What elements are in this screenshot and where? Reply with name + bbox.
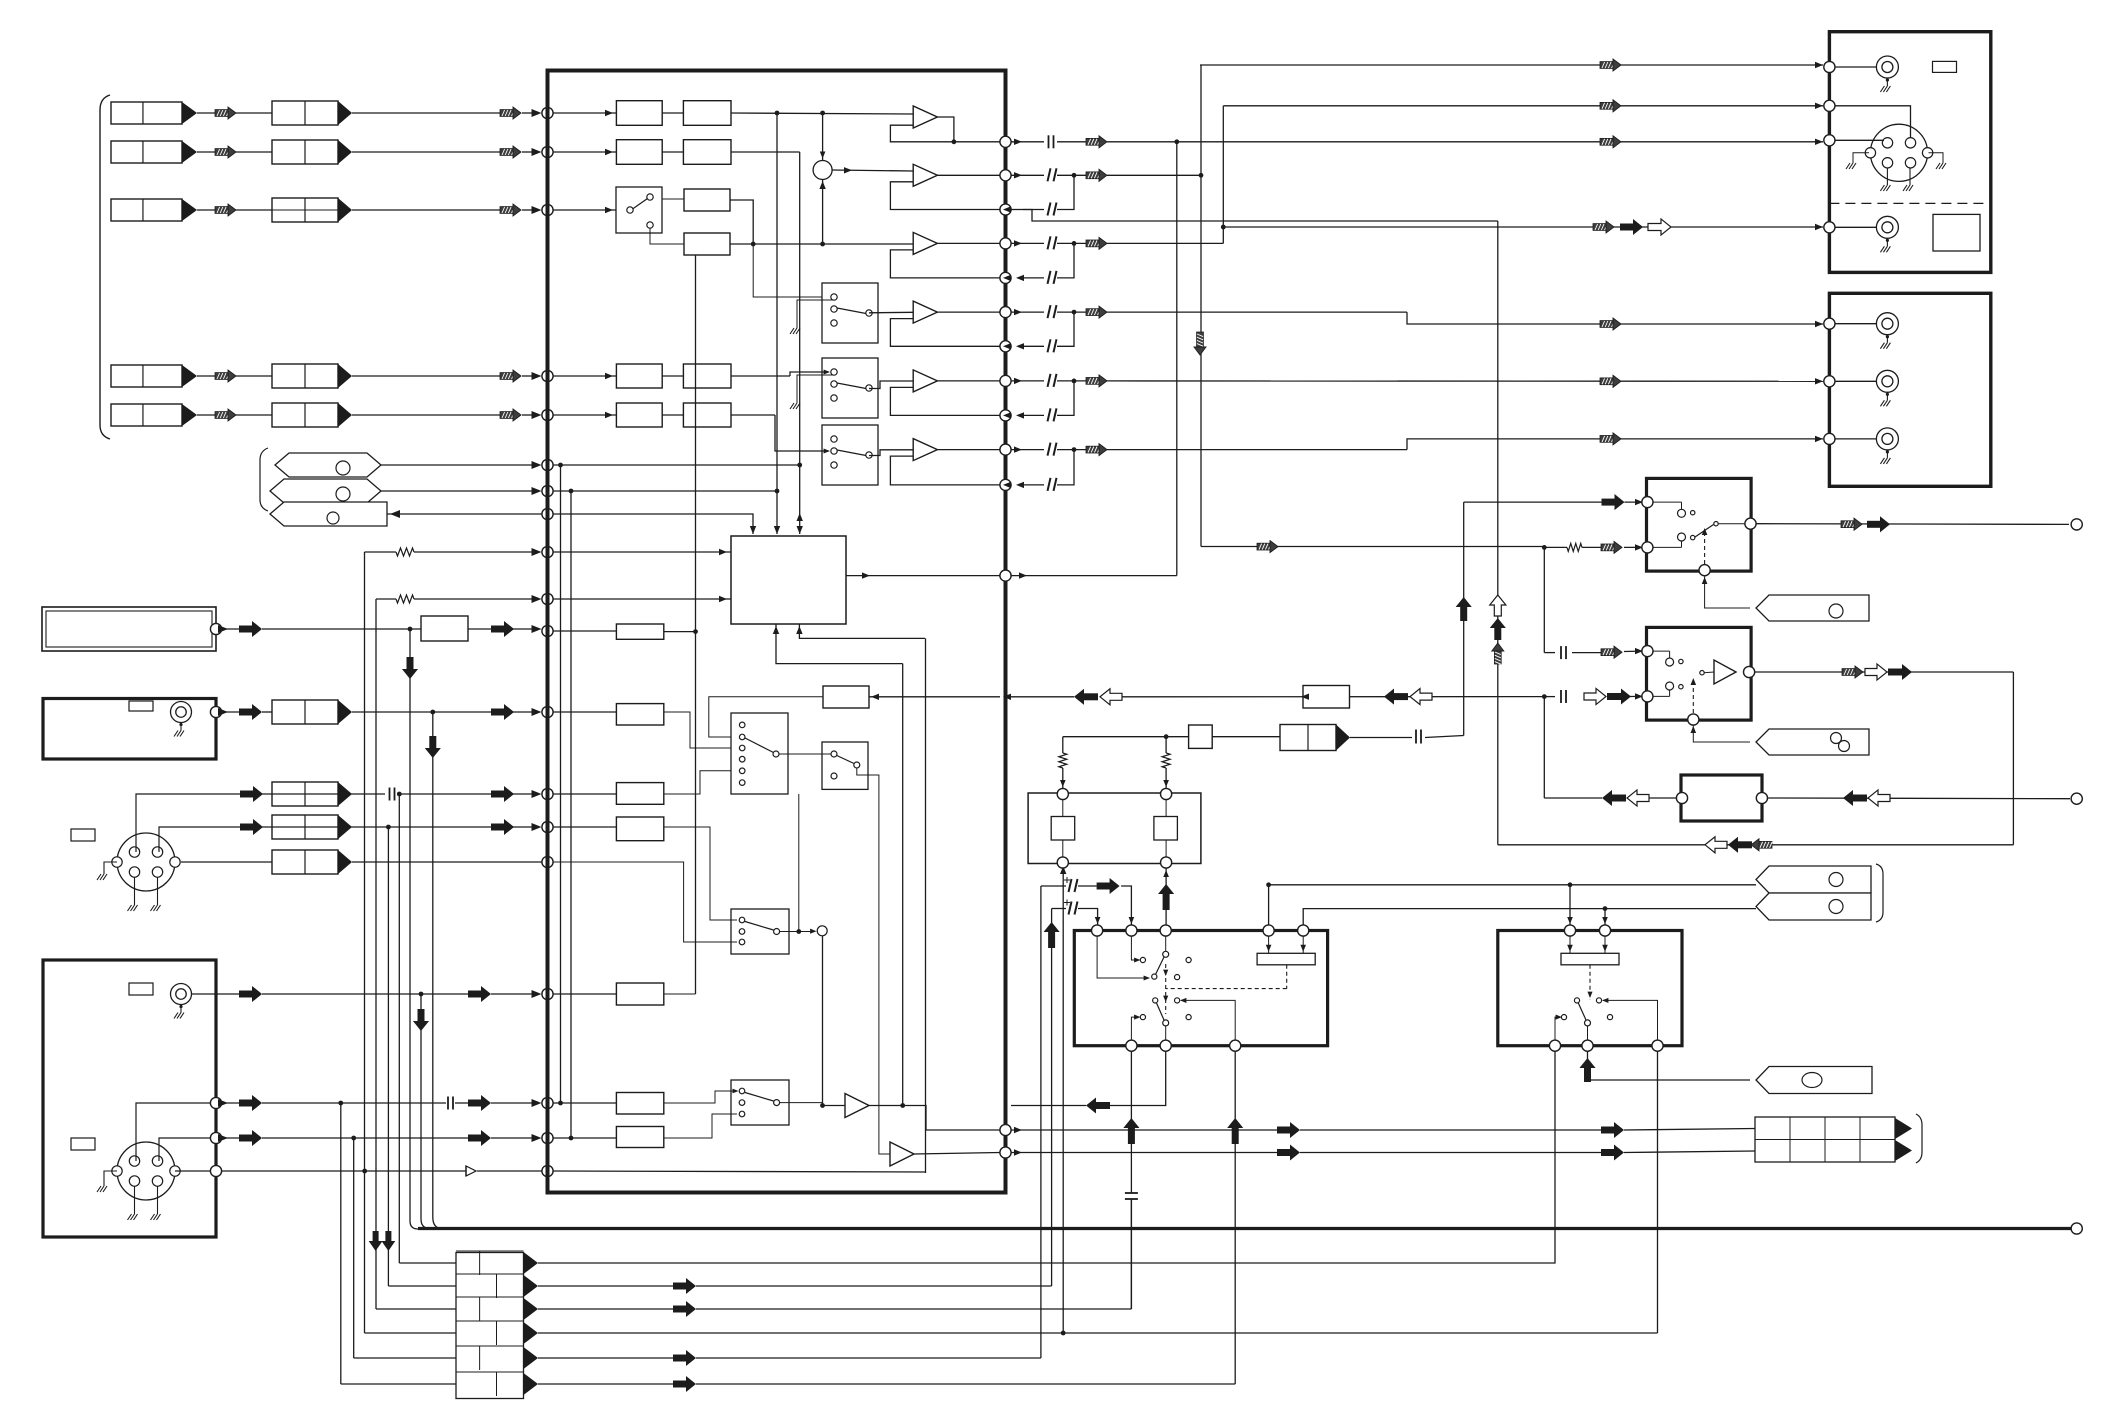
wire to IC row5	[352, 414, 500, 416]
wire rec head	[1212, 736, 1280, 738]
amplifier box right	[1829, 293, 1990, 486]
long vertical x695	[695, 255, 697, 994]
terminal S4 out bubble	[817, 926, 827, 936]
RCA jack tt	[171, 984, 192, 1005]
terminal P2	[542, 485, 553, 496]
hatched arrow row5 b	[500, 412, 514, 419]
fat arrow 994b	[468, 991, 482, 998]
terminal dolbyB bot x1555	[1549, 1040, 1560, 1051]
vertical x822 to summing	[822, 113, 824, 160]
resistor y547	[1567, 543, 1582, 551]
vertical x925	[925, 638, 927, 1173]
terminal R10	[1000, 444, 1011, 455]
fat arrow 631b	[491, 626, 505, 633]
outline arrow mon right	[1868, 790, 1890, 806]
relay REC contacts	[1678, 509, 1686, 517]
hatched arrow y547	[1601, 544, 1615, 551]
vertical x902	[902, 664, 904, 1106]
switch box M3	[822, 425, 878, 485]
dashed divider deck	[1829, 202, 1990, 204]
wire A3 output	[937, 242, 1000, 244]
hatched down arrow on x1200	[1197, 332, 1204, 348]
dolby B level rect	[1561, 953, 1619, 965]
wire R out y243.4	[1011, 242, 1044, 244]
block row827 inside	[616, 817, 663, 841]
vertical x1223	[1222, 106, 1224, 227]
terminal deck4	[1824, 222, 1835, 233]
cap y652	[1560, 646, 1562, 659]
op-amp A4	[913, 301, 937, 323]
filter block A1	[616, 101, 662, 126]
resistor lv2	[1162, 753, 1170, 768]
stack row6 wire right	[538, 1383, 673, 1385]
junction y696	[1542, 694, 1547, 699]
wire to tapeout1 y65	[1200, 64, 1823, 66]
wire C1	[662, 198, 684, 200]
terminal matrix out	[1000, 570, 1011, 581]
wire H5	[197, 414, 215, 416]
block C1	[684, 189, 730, 211]
filter block A2	[683, 101, 731, 126]
bracket left input group	[100, 95, 110, 439]
terminal 1138	[542, 1132, 553, 1143]
wire P2 inside	[553, 490, 777, 492]
terminal R5	[1000, 272, 1011, 283]
dolby B switch	[1585, 1020, 1591, 1026]
relay REC dashed ctl	[1704, 530, 1706, 564]
switch box M1	[822, 283, 878, 343]
terminal 827	[542, 821, 553, 832]
fat up arrow b1235	[1232, 1127, 1239, 1144]
phono label rect	[71, 1138, 95, 1150]
hatched arrow rec out	[1841, 521, 1855, 528]
block row1138 inside	[616, 1127, 663, 1148]
tuner box	[43, 699, 216, 760]
junction A 822	[820, 111, 825, 116]
op-amp A3	[913, 232, 937, 254]
terminal R9	[1000, 410, 1011, 421]
ground aux b1	[134, 877, 136, 905]
ground deck b2	[1909, 168, 1911, 185]
terminal rec ctl	[1699, 565, 1710, 576]
wire to IC row3	[352, 209, 500, 211]
hatched arrow y381	[1600, 378, 1614, 385]
terminal tt 1171	[210, 1165, 221, 1176]
fat up arrow b1131	[1128, 1127, 1135, 1144]
RCA amp1	[1876, 313, 1898, 335]
junction 1138	[351, 1136, 356, 1141]
terminal 862	[542, 856, 553, 867]
terminal play in2	[1642, 691, 1653, 702]
vertical x777 to matrix	[776, 113, 778, 534]
bus vertical x340	[340, 1103, 342, 1384]
wire A1 output jog	[937, 117, 1000, 142]
vertical x798	[798, 794, 800, 932]
ground phono b2	[157, 1186, 159, 1214]
wire to IC row2	[352, 151, 500, 153]
terminal mon jack	[2071, 793, 2082, 804]
hatched arrow y546b	[1257, 543, 1271, 550]
wire R2 y175	[1107, 174, 1201, 176]
wire R-row 599	[376, 598, 396, 600]
terminal lv b2	[1161, 857, 1172, 868]
wire R11 in	[1003, 482, 1011, 488]
stack head 6	[456, 1371, 524, 1373]
RCA amp2	[1876, 370, 1898, 392]
wire play out loop	[1755, 671, 2013, 673]
fat arrow y844	[1737, 841, 1752, 848]
wire row 862	[181, 861, 272, 863]
polar cap 2	[1069, 902, 1072, 915]
RCA deck out	[1876, 216, 1898, 238]
filter block B2	[683, 140, 731, 165]
terminal R12	[1000, 1124, 1011, 1135]
wire H1	[197, 112, 215, 114]
wire R12 row	[1011, 1129, 1277, 1131]
tape head row794	[272, 782, 338, 806]
wire amp8 out	[914, 1153, 1000, 1155]
op-amp A6	[913, 439, 937, 461]
terminal deck2	[1824, 100, 1835, 111]
hatched arrow y227	[1593, 224, 1607, 231]
fat arrow R13 b	[1601, 1149, 1615, 1156]
wire play in1	[1544, 652, 1555, 654]
wire 862 inside	[553, 862, 737, 942]
wire row D	[553, 375, 616, 377]
summing in from below	[822, 180, 824, 245]
wire C2 out	[730, 243, 913, 245]
wire row C	[553, 209, 616, 211]
feedback loop A3 from return row	[890, 250, 1000, 278]
outline arrow y844	[1705, 837, 1727, 853]
wire R1 to box y141.8	[1107, 141, 1823, 143]
ground deck b1	[1886, 168, 1888, 185]
hatched arrow row5	[215, 412, 229, 419]
fat arrow y696 left	[1083, 693, 1098, 700]
summing out wire	[832, 170, 913, 171]
wire rec in1 from cap	[1464, 501, 1602, 503]
wire deck2	[1835, 106, 1911, 138]
fat arrow 712b	[491, 709, 505, 716]
plug P3	[270, 502, 387, 526]
stack head 1	[456, 1250, 524, 1252]
hatched arrow row2 b	[500, 149, 514, 156]
square L	[1051, 817, 1075, 841]
pair return branch y449.6	[1072, 447, 1077, 452]
terminal dolbyB bot x1657	[1652, 1040, 1663, 1051]
ground M1	[797, 300, 834, 328]
indicator rect	[129, 701, 153, 711]
cap row794	[389, 788, 391, 801]
wire y696 feedback	[1011, 696, 1074, 698]
relay PLAY dashed	[1692, 680, 1694, 713]
junction 994	[419, 992, 424, 997]
terminal mon L	[1676, 792, 1687, 803]
terminal tt 1138	[210, 1132, 221, 1143]
square R	[1154, 817, 1178, 841]
RCA amp3	[1876, 428, 1898, 450]
hatched arrow out y312.1	[1086, 309, 1100, 316]
plug P2	[270, 479, 381, 503]
terminal dolbyA bot x1131	[1126, 1040, 1137, 1051]
wire A5 output	[937, 380, 1000, 382]
fat up arrow x1497	[1494, 627, 1501, 640]
fat arrow mon right	[1852, 795, 1867, 802]
hatched arrow y438	[1600, 436, 1614, 443]
fat up arrow lvb2	[1163, 893, 1170, 910]
terminal dolbyA top x1165	[1160, 925, 1171, 936]
tape head H5b	[272, 403, 338, 427]
wire amp7 input	[823, 1105, 846, 1107]
hatched arrow y105	[1600, 102, 1614, 109]
terminal dolbyA top x1097	[1092, 925, 1103, 936]
block row631	[421, 616, 468, 641]
DIN deck	[1870, 124, 1927, 181]
fat arrow stack2	[673, 1283, 687, 1290]
turntable box	[43, 960, 216, 1237]
terminal rec out	[1745, 518, 1756, 529]
wire deck3	[1835, 139, 1884, 141]
interior vertical x560	[560, 465, 562, 1103]
filter block D2	[683, 364, 731, 388]
wire row 712	[222, 711, 239, 713]
tape head rec	[1280, 725, 1336, 751]
junction R1 x1176	[1174, 139, 1179, 144]
summing node	[813, 161, 832, 180]
matrix block	[731, 536, 846, 624]
terminal lv b1	[1057, 857, 1068, 868]
wire H2	[197, 151, 215, 153]
matrix bottom feedback 1	[776, 624, 903, 664]
ground deck R	[1929, 153, 1944, 163]
wire 712 inside	[553, 711, 616, 713]
switch box M2	[822, 358, 878, 418]
fat arrow 794b	[491, 791, 505, 798]
dolby B dashed	[1589, 965, 1591, 1000]
hatched arrow y65	[1600, 62, 1614, 69]
hatched arrow row2	[215, 149, 229, 156]
feedback block FB	[823, 686, 869, 708]
terminal deck3	[1824, 135, 1835, 146]
hatched arrow row3	[215, 207, 229, 214]
terminal P1	[542, 459, 553, 470]
level rect deck	[1933, 61, 1957, 72]
wire rec cap	[1350, 737, 1412, 739]
wire H3	[197, 209, 215, 211]
vertical x1176	[1176, 142, 1178, 576]
terminal amp1	[1824, 318, 1835, 329]
stack row3 wire right	[538, 1308, 673, 1310]
stack head 4	[456, 1320, 524, 1322]
wire R out y141.8	[1011, 141, 1044, 143]
hatched arrow row3 b	[500, 207, 514, 214]
tape head H3a	[111, 199, 182, 221]
switch box S2	[822, 742, 868, 789]
terminal rec out jack	[2071, 519, 2082, 530]
plug dolby remote	[1756, 1067, 1872, 1094]
wire 827 inside	[553, 826, 616, 828]
aux label rect	[71, 829, 95, 841]
relay box PLAY	[1647, 627, 1752, 720]
fat up arrow dB2	[1584, 1067, 1591, 1082]
fat arrow 1138a	[239, 1135, 253, 1142]
fat arrow R12 a	[1277, 1127, 1291, 1134]
fat arrow rec in1	[1602, 499, 1616, 506]
op-amp A8	[890, 1142, 914, 1166]
bus vertical x388	[387, 827, 389, 1286]
relay PLAY contacts	[1666, 658, 1674, 666]
wire P1	[381, 464, 538, 466]
wire mon left	[1544, 797, 1602, 799]
terminal play in1	[1642, 646, 1653, 657]
wire 794 inside	[553, 793, 616, 795]
fat arrow stack5	[673, 1355, 687, 1362]
wire S3 out	[780, 1102, 823, 1104]
terminal dolbyB bot x1587	[1582, 1040, 1593, 1051]
resistor lv1	[1059, 753, 1067, 768]
hatched up arrow x1497	[1494, 650, 1501, 664]
wire R6 y312	[1107, 311, 1407, 313]
wire H4	[197, 375, 215, 377]
fat arrow rec out	[1867, 521, 1881, 528]
wire pcap2	[1052, 908, 1066, 910]
fat arrow dolbyA left	[1095, 1102, 1110, 1109]
dolby A level rect	[1257, 953, 1315, 965]
wire deck1	[1835, 66, 1876, 68]
DIN connector phono	[117, 1142, 175, 1200]
wire play plug	[1693, 725, 1750, 742]
wire 1171 inside	[553, 1171, 926, 1172]
terminal lv t2	[1161, 788, 1172, 799]
filter block D1	[616, 364, 662, 388]
junction 827	[386, 825, 391, 830]
monitor box	[1681, 775, 1762, 821]
wire 994 inside	[553, 993, 616, 995]
terminal 994	[542, 988, 553, 999]
terminal 1103	[542, 1097, 553, 1108]
wire to IC row1	[352, 112, 500, 114]
resistor row552	[396, 548, 414, 556]
vertical x1200	[1200, 65, 1202, 547]
terminal 552	[542, 546, 553, 557]
dolby box A	[1074, 931, 1327, 1046]
main ground bus wire	[418, 1227, 2071, 1230]
wire R10 y449	[1107, 449, 1407, 451]
outline arrow y696 mid	[1410, 689, 1432, 705]
vertical x2013	[2012, 672, 2014, 845]
wire to tapeout2 y105.8	[1223, 105, 1823, 107]
fat arrow 1138b	[468, 1135, 482, 1142]
wire row A	[553, 112, 616, 114]
op-amp A2	[913, 164, 937, 186]
display unit box	[42, 607, 216, 651]
block row994 inside	[616, 983, 663, 1005]
double down arrows on bus	[373, 1231, 379, 1242]
wire R3 return y221	[1023, 210, 1498, 222]
wire 1138 inside	[553, 1137, 616, 1139]
wire P1 inside	[553, 464, 800, 466]
wire R out y380.9	[1011, 380, 1044, 382]
junction A 777	[775, 111, 780, 116]
filter block E1	[616, 403, 662, 427]
terminal dolbyB t1	[1564, 925, 1575, 936]
terminal 794	[542, 788, 553, 799]
bracket plug group	[260, 448, 268, 511]
outline arrow y696 left	[1100, 689, 1122, 705]
plug P1	[275, 453, 381, 477]
wire dolbyA b3	[1234, 1051, 1236, 1384]
vertical x1544 low	[1543, 697, 1545, 798]
hatched arrow y844	[1758, 841, 1772, 848]
hatched arrow out y243.4	[1086, 240, 1100, 247]
terminal deck1	[1824, 61, 1835, 72]
terminal row2	[542, 146, 553, 157]
hatched arrow out y175.3	[1086, 172, 1100, 179]
wire row 794	[136, 794, 240, 852]
tape head row712	[272, 700, 338, 724]
wire y844 return	[1498, 844, 2014, 846]
terminal P3	[542, 508, 553, 519]
bus end terminal	[2071, 1223, 2082, 1234]
head stack block	[456, 1253, 524, 1399]
wire 552 inside	[553, 551, 731, 553]
stack wires left entries	[399, 1262, 456, 1264]
hatched arrow row4 b	[500, 373, 514, 380]
fat arrow y696 right	[1607, 693, 1622, 700]
block row631 inside	[616, 624, 663, 639]
dolby box B	[1498, 931, 1682, 1046]
wire deck4	[1835, 226, 1876, 228]
wire row 1138	[159, 1138, 216, 1161]
wire M3 out	[869, 450, 913, 456]
block row712 inside	[616, 704, 663, 725]
fat arrow stack3	[673, 1306, 687, 1313]
fat arrow 827a	[240, 824, 254, 831]
bracket record heads	[1916, 1114, 1922, 1163]
hatched arrow out y449.6	[1086, 446, 1100, 453]
tape head H5a	[111, 404, 182, 426]
wire y696 into FB rect	[869, 696, 1000, 698]
plug play remote	[1756, 729, 1869, 755]
plug rec remote	[1756, 595, 1869, 621]
terminal R3	[1000, 204, 1011, 215]
vertical x1544	[1543, 547, 1545, 652]
tape head H1a	[111, 102, 182, 124]
wire mon right	[1768, 797, 2070, 800]
terminal dolbyA top x1303	[1298, 925, 1309, 936]
terminal rec in1	[1642, 497, 1653, 508]
wire R-row 552	[365, 551, 397, 553]
fat arrow 712a	[239, 709, 253, 716]
wire P3 inside	[553, 514, 753, 534]
terminal R4	[1000, 238, 1011, 249]
wire rec out to jack	[1756, 523, 2069, 526]
block row1103 inside	[616, 1093, 663, 1115]
wire plugB	[1303, 909, 1756, 926]
tape head H2a	[111, 141, 182, 163]
wire row 1171	[175, 1170, 216, 1172]
fat arrow R12 b	[1601, 1127, 1615, 1134]
terminal dolbyA bot x1165	[1160, 1040, 1171, 1051]
fat arrow 827b	[491, 824, 505, 831]
fat arrow 631a	[239, 626, 253, 633]
record head block	[1755, 1117, 1895, 1162]
fat arrow stack6	[673, 1381, 687, 1388]
fat arrow 1103b	[468, 1100, 482, 1107]
terminal mon R	[1756, 792, 1767, 803]
matrix out arrow right	[1011, 575, 1177, 577]
stack head 2	[456, 1273, 524, 1275]
